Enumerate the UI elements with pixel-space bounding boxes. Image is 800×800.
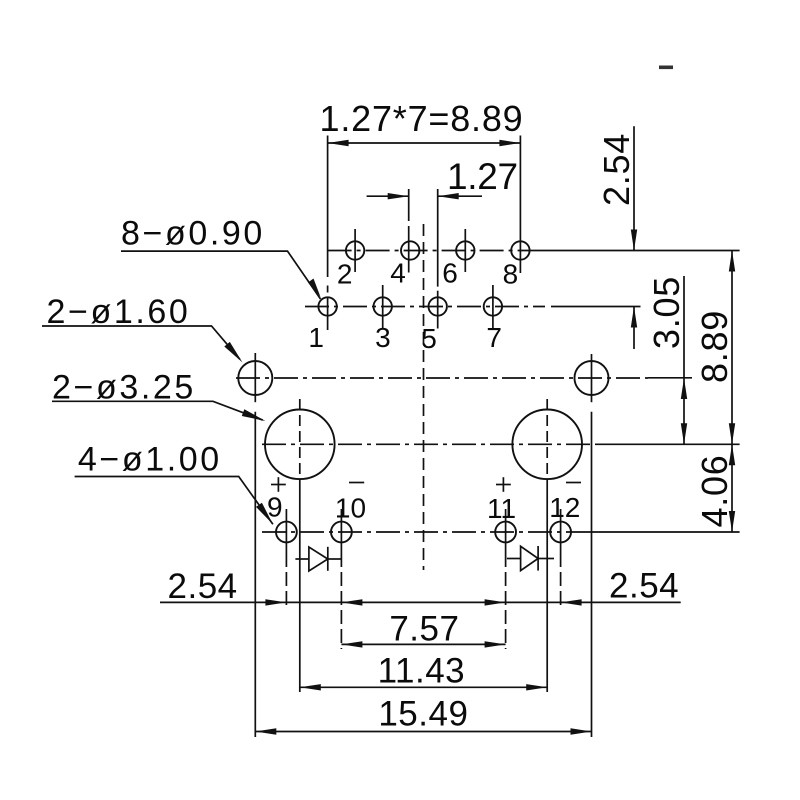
svg-text:11.43: 11.43 <box>378 652 466 691</box>
svg-text:8: 8 <box>503 259 519 290</box>
svg-text:8.89: 8.89 <box>694 310 735 383</box>
svg-text:2.54: 2.54 <box>609 567 679 606</box>
svg-text:2.54: 2.54 <box>168 567 238 606</box>
svg-text:1.27: 1.27 <box>447 156 518 197</box>
svg-text:4.06: 4.06 <box>694 455 735 528</box>
svg-text:5: 5 <box>421 323 437 354</box>
svg-text:12: 12 <box>549 492 580 523</box>
svg-text:4: 4 <box>390 258 406 289</box>
svg-text:9: 9 <box>267 492 283 523</box>
svg-text:10: 10 <box>335 492 366 523</box>
svg-text:7: 7 <box>486 322 502 353</box>
svg-text:7.57: 7.57 <box>389 610 459 649</box>
svg-text:2: 2 <box>337 259 353 290</box>
svg-text:6: 6 <box>442 258 458 289</box>
svg-text:2.54: 2.54 <box>596 133 637 206</box>
svg-text:15.49: 15.49 <box>378 695 468 734</box>
svg-text:11: 11 <box>487 493 516 524</box>
svg-text:8−ø0.90: 8−ø0.90 <box>121 215 265 253</box>
svg-text:4−ø1.00: 4−ø1.00 <box>78 441 222 479</box>
svg-text:3.05: 3.05 <box>646 276 687 349</box>
svg-text:3: 3 <box>375 322 391 353</box>
svg-text:1: 1 <box>308 322 324 353</box>
svg-text:1.27*7=8.89: 1.27*7=8.89 <box>320 98 524 139</box>
